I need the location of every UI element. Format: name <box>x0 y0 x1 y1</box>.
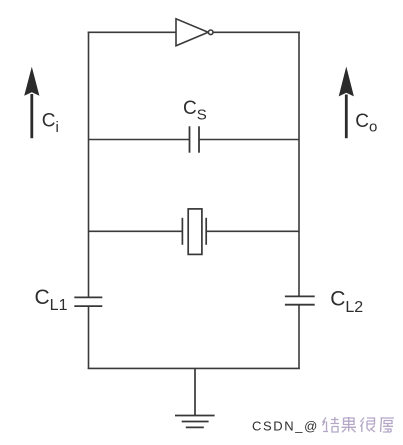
svg-text:CS: CS <box>183 98 207 124</box>
fake glyph 很 <box>361 418 376 433</box>
wire top-left (inverter input from left rail) <box>88 31 176 33</box>
arrow Ci <box>24 67 39 138</box>
fake glyph 果 <box>342 417 357 432</box>
wire CS branch left <box>89 139 190 141</box>
fake glyph 厚 <box>381 418 395 433</box>
wire right rail upper (top corner down to CL2) <box>298 32 300 297</box>
crystal X1 <box>182 209 206 255</box>
wire crystal branch right <box>206 230 299 232</box>
wire left rail lower (CL1 down to bottom wire) <box>88 307 90 370</box>
inverter U1 <box>176 19 213 46</box>
capacitor CS <box>190 126 200 152</box>
wire bottom (ground rail) <box>88 367 300 369</box>
capacitor CL1 <box>74 297 102 306</box>
svg-text:CL1: CL1 <box>35 286 68 314</box>
wire top-right (inverter output to right rail) <box>213 31 300 33</box>
wire CS branch right <box>199 139 299 141</box>
svg-text:CSDN_@: CSDN_@ <box>252 419 319 434</box>
wire crystal branch left <box>89 230 183 232</box>
watermark CSDN_@结果很厚 <box>252 417 394 434</box>
svg-text:CL2: CL2 <box>330 287 363 316</box>
capacitor CL2 <box>285 296 315 304</box>
wire right rail lower (CL2 down to bottom wire) <box>298 305 300 369</box>
ground <box>175 368 215 427</box>
wire left rail upper (top corner down to CL1) <box>88 32 90 298</box>
fake glyph 结 <box>323 417 340 432</box>
svg-text:Co: Co <box>355 111 377 135</box>
svg-text:Ci: Ci <box>42 111 59 136</box>
arrow Co <box>339 67 354 139</box>
